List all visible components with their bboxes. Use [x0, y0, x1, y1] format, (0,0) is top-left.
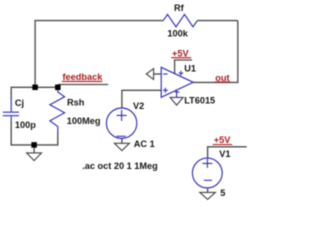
svg-text:5: 5: [220, 188, 225, 198]
svg-text:V2: V2: [133, 101, 144, 111]
node junction feedback-Rsh: [55, 85, 61, 91]
voltage source V2: [106, 108, 136, 138]
resistor Rf: [163, 14, 197, 26]
wire Rf right lead to right rail: [197, 20, 238, 22]
wire op-amp V+ to +5V flag with bar: [175, 60, 192, 74]
svg-text:100p: 100p: [15, 120, 36, 130]
voltage source V1: [192, 158, 222, 188]
op-amp V- marker: [175, 91, 180, 93]
svg-text:100k: 100k: [167, 29, 188, 39]
svg-text:Cj: Cj: [15, 98, 24, 108]
wire gnd stub bottom-left: [33, 145, 35, 153]
svg-text:LT6015: LT6015: [184, 96, 215, 106]
svg-text:out: out: [215, 73, 229, 83]
ground op-amp V-: [170, 97, 183, 105]
V1 plus marker: [202, 159, 212, 168]
wire V2 to op-amp noninverting input: [122, 90, 161, 108]
feedback flag bar: [58, 84, 108, 86]
capacitor Cj: [3, 100, 19, 122]
ground rotated at inverting input: [146, 69, 153, 80]
op-amp noninverting input marker: [163, 88, 168, 93]
op-amp V+ marker: [179, 71, 184, 76]
svg-text:.ac oct 20 1 1Meg: .ac oct 20 1 1Meg: [82, 161, 158, 171]
ground V1: [200, 192, 216, 199]
svg-text:+5V: +5V: [214, 135, 231, 145]
resistor Rsh: [50, 90, 65, 132]
svg-text:+5V: +5V: [172, 48, 189, 58]
svg-text:100Meg: 100Meg: [67, 116, 101, 126]
V2 minus marker: [117, 135, 126, 137]
wire bottom rail to Rsh bottom: [34, 132, 58, 145]
wire V2 gnd stub: [121, 138, 123, 143]
node junction bottom ground: [31, 142, 36, 148]
ground bottom-left: [27, 153, 42, 161]
wire op-amp output to right rail: [193, 81, 238, 83]
op-amp inverting input marker: [163, 73, 168, 75]
wire right rail down to output: [237, 21, 239, 83]
wire feedback horizontal: [11, 86, 58, 88]
svg-text:Rf: Rf: [174, 3, 185, 13]
svg-text:Rsh: Rsh: [67, 97, 85, 107]
wire Cj bottom to bottom rail: [11, 122, 34, 145]
svg-text:AC 1: AC 1: [134, 139, 155, 149]
wire op-amp V- pin: [176, 90, 178, 97]
wire top loop from feedback node up and across to Rf: [35, 21, 163, 88]
wire Rsh top stub: [57, 87, 59, 90]
V2 plus marker: [117, 110, 127, 121]
wire inverting input to ground flag: [154, 73, 162, 75]
wire V1 bottom stub: [207, 188, 209, 193]
wire V1 top with +5V flag bar: [208, 147, 247, 158]
svg-text:feedback: feedback: [63, 72, 104, 82]
svg-text:V1: V1: [219, 149, 230, 159]
V1 minus marker: [204, 179, 212, 181]
op-amp U1: [161, 67, 193, 97]
ground V2: [114, 143, 129, 150]
wire Cj top lead: [10, 87, 12, 100]
node junction feedback-left: [32, 85, 38, 91]
svg-text:U1: U1: [184, 63, 196, 73]
